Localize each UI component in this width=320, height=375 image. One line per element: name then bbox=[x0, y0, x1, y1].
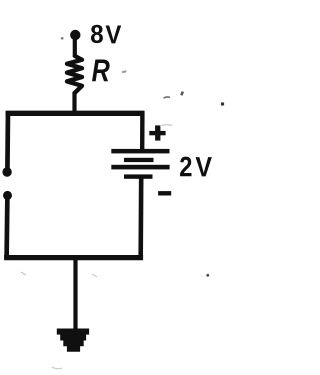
wire right rail upper segment bbox=[140, 111, 145, 150]
faint scan mark bottom center bbox=[52, 367, 62, 369]
label 2 V - glyph V bbox=[196, 157, 212, 176]
faint scan mark below bottom rail right bbox=[92, 274, 97, 277]
scan dash above top rail right bbox=[164, 97, 171, 98]
label 8 V - glyph V bbox=[106, 26, 122, 44]
wire resistor R to top rail bbox=[72, 92, 76, 114]
wire top rail bbox=[6, 111, 145, 116]
scan speck dot right edge bbox=[221, 102, 224, 105]
switch terminal dot lower bbox=[3, 191, 12, 200]
faint scan mark lower-left bbox=[21, 272, 26, 275]
node A (8V supply terminal dot) bbox=[70, 30, 80, 40]
battery V1 plate 3 long bbox=[111, 165, 169, 170]
wire left rail lower segment bbox=[4, 196, 10, 258]
scan speck lower right bbox=[206, 274, 209, 277]
battery V1 plate 2 short bbox=[124, 158, 154, 162]
wire left rail upper segment bbox=[5, 111, 10, 170]
switch terminal dot upper bbox=[2, 167, 11, 176]
wire bottom center tap to ground bbox=[73, 256, 77, 330]
label 2 V - glyph 2 bbox=[180, 157, 191, 177]
scan speck near top-right bbox=[180, 91, 184, 96]
scan speck right of R bbox=[122, 70, 127, 73]
battery V1 plate 4 short (-) bbox=[124, 174, 153, 178]
battery minus sign bbox=[158, 191, 171, 195]
ground symbol bbox=[57, 329, 89, 352]
resistor R bbox=[67, 56, 82, 93]
faint scan mark below 2V bbox=[160, 125, 172, 126]
wire node A to resistor R bbox=[73, 36, 77, 57]
wire right rail lower segment bbox=[138, 178, 143, 259]
scan speck left of node A bbox=[61, 37, 64, 40]
battery plus sign bbox=[149, 131, 165, 135]
label 8 V - glyph 8 bbox=[91, 25, 103, 43]
label R bbox=[92, 60, 110, 82]
wire bottom rail bbox=[4, 255, 143, 260]
battery V1 plate 1 long (+) bbox=[111, 149, 169, 154]
